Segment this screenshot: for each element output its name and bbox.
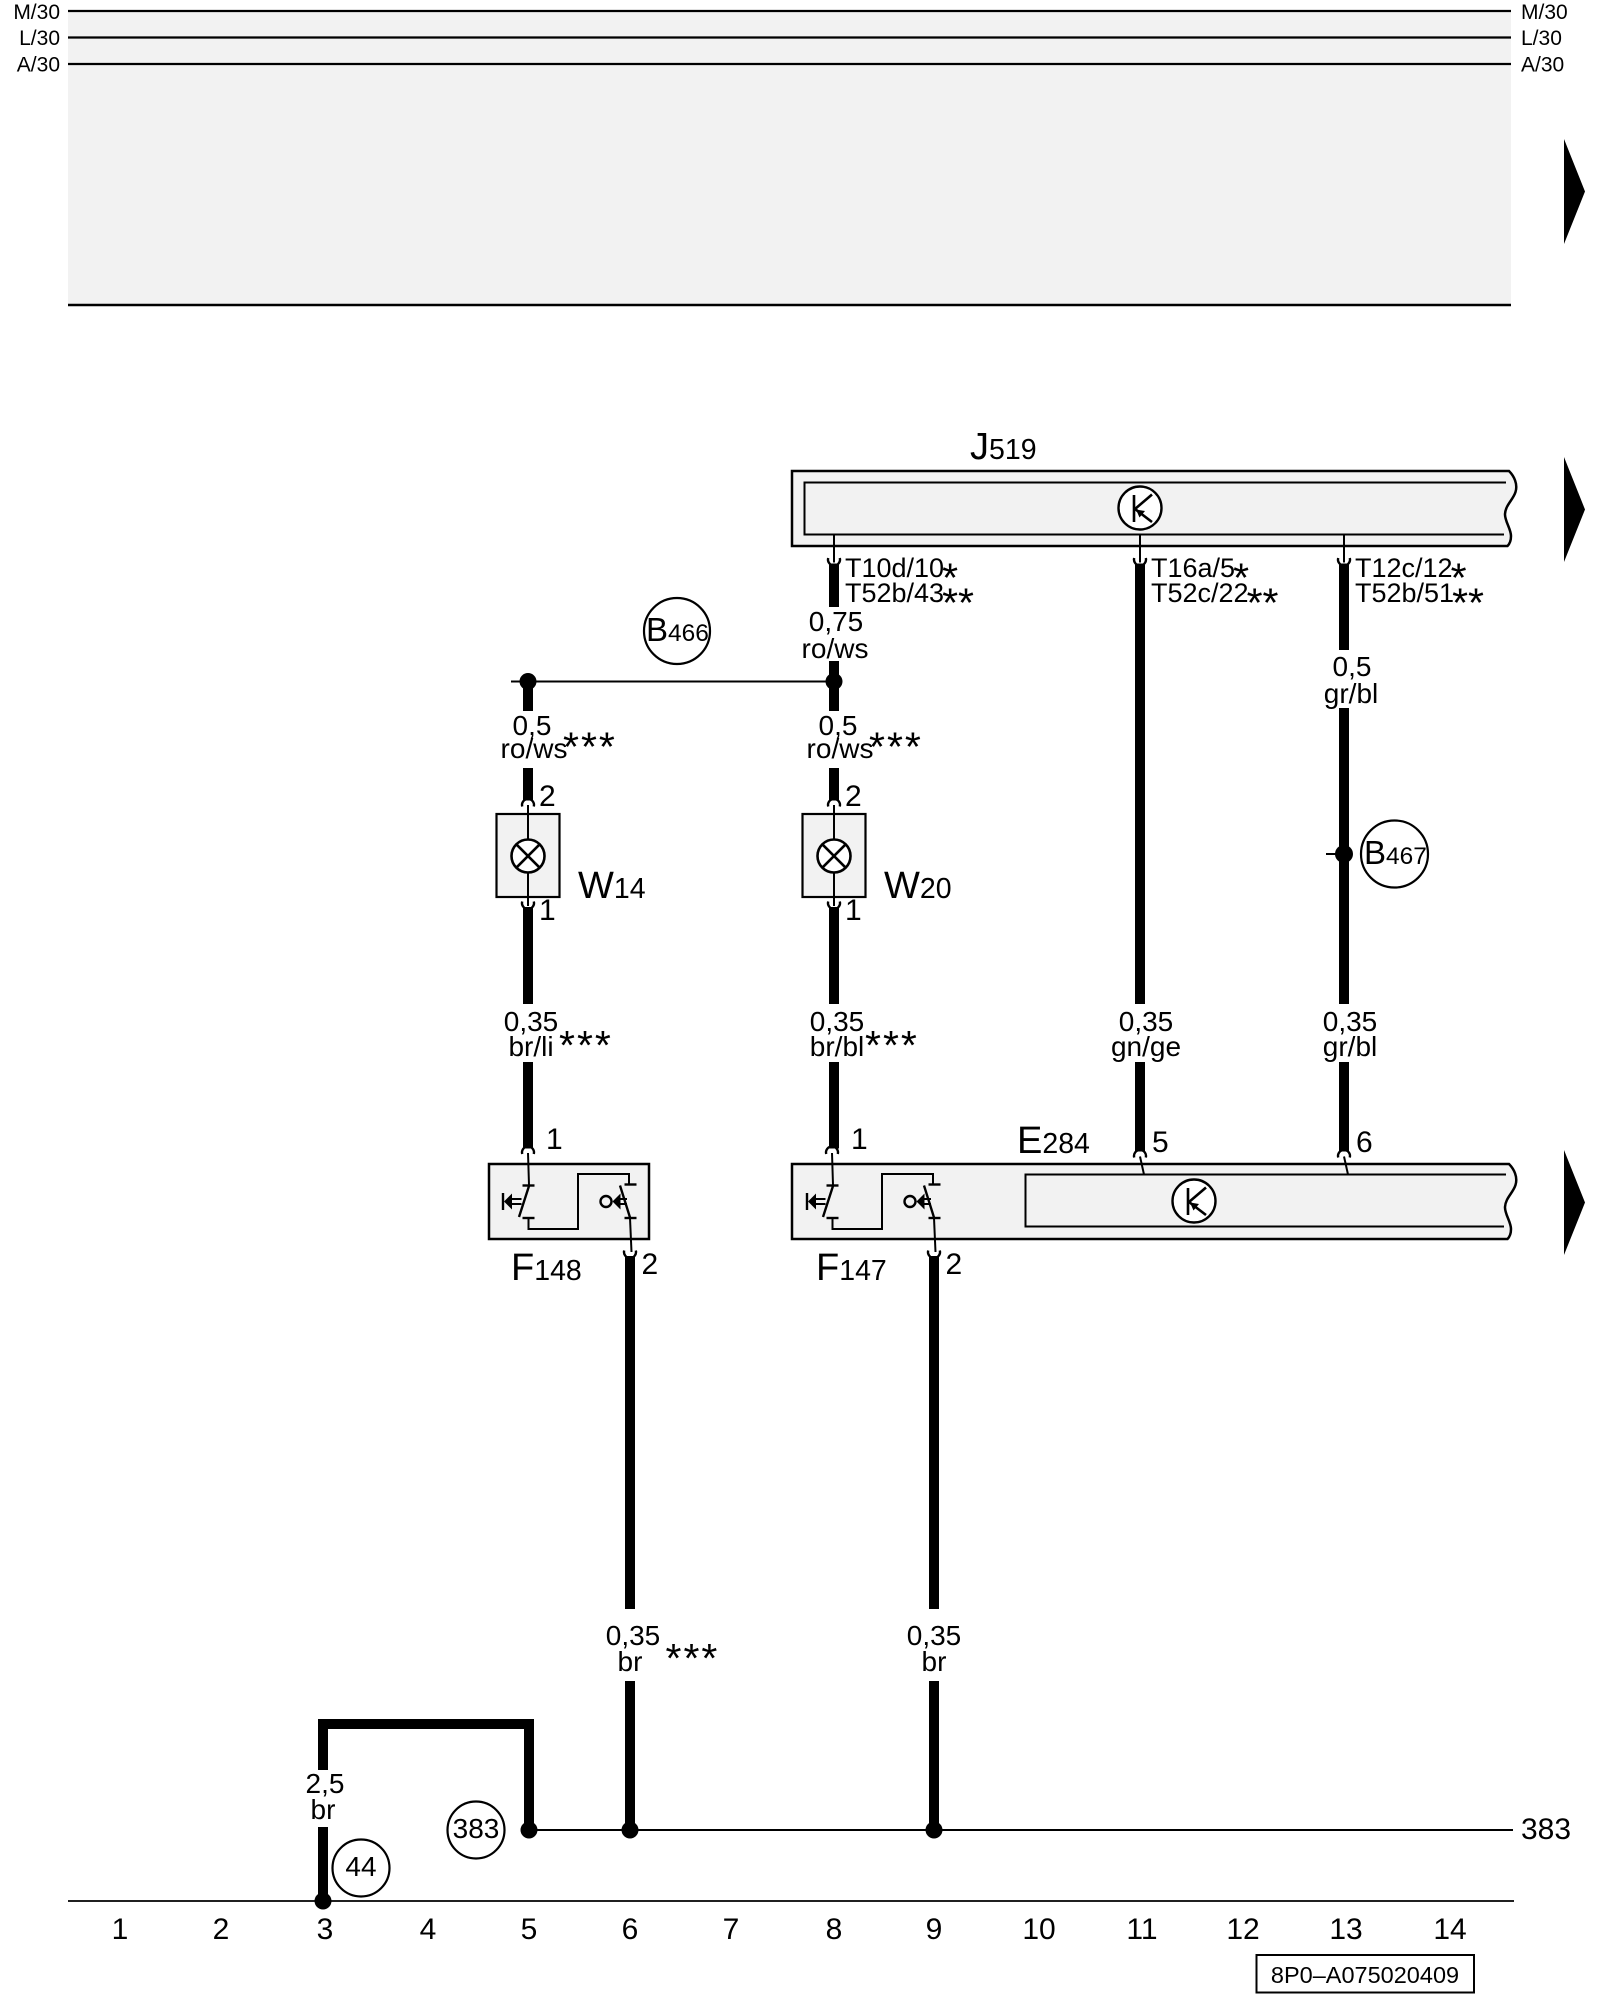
svg-text:14: 14 (1433, 1913, 1466, 1946)
svg-text:383: 383 (453, 1813, 500, 1844)
svg-text:br: br (618, 1646, 643, 1677)
svg-text:ro/ws: ro/ws (802, 633, 869, 664)
svg-text:44: 44 (345, 1851, 376, 1882)
svg-text:1: 1 (539, 894, 556, 927)
svg-text:3: 3 (317, 1913, 334, 1946)
svg-text:6: 6 (622, 1913, 639, 1946)
svg-text:7: 7 (723, 1913, 740, 1946)
svg-text:br/li: br/li (508, 1031, 553, 1062)
svg-text:br: br (311, 1794, 336, 1825)
svg-text:L/30: L/30 (1521, 27, 1562, 50)
svg-text:2: 2 (845, 780, 862, 813)
svg-text:L/30: L/30 (19, 27, 60, 50)
svg-text:gr/bl: gr/bl (1324, 678, 1378, 709)
svg-text:8: 8 (826, 1913, 843, 1946)
svg-text:8P0–A075020409: 8P0–A075020409 (1271, 1962, 1459, 1988)
svg-text:2: 2 (213, 1913, 230, 1946)
svg-text:***: *** (563, 724, 617, 770)
svg-text:5: 5 (1152, 1126, 1169, 1159)
svg-text:13: 13 (1329, 1913, 1362, 1946)
svg-text:***: *** (559, 1022, 613, 1068)
svg-text:ro/ws: ro/ws (807, 733, 874, 764)
svg-text:2: 2 (539, 780, 556, 813)
svg-text:***: *** (869, 724, 923, 770)
svg-text:4: 4 (420, 1913, 437, 1946)
svg-text:A/30: A/30 (1521, 54, 1564, 77)
svg-text:1: 1 (112, 1913, 129, 1946)
svg-text:br: br (922, 1646, 947, 1677)
svg-text:6: 6 (1356, 1126, 1373, 1159)
svg-text:1: 1 (845, 894, 862, 927)
svg-text:1: 1 (851, 1123, 868, 1156)
svg-text:A/30: A/30 (17, 54, 60, 77)
svg-text:gr/bl: gr/bl (1323, 1031, 1377, 1062)
svg-text:1: 1 (546, 1123, 563, 1156)
svg-text:2: 2 (946, 1248, 963, 1281)
svg-text:383: 383 (1521, 1813, 1571, 1846)
svg-text:M/30: M/30 (13, 1, 60, 24)
svg-text:11: 11 (1126, 1913, 1157, 1946)
svg-text:br/bl: br/bl (810, 1031, 864, 1062)
svg-text:ro/ws: ro/ws (501, 733, 568, 764)
svg-text:***: *** (666, 1635, 720, 1681)
svg-text:5: 5 (521, 1913, 538, 1946)
svg-text:gn/ge: gn/ge (1111, 1031, 1181, 1062)
svg-text:2: 2 (642, 1248, 659, 1281)
svg-text:10: 10 (1022, 1913, 1055, 1946)
svg-text:12: 12 (1226, 1913, 1259, 1946)
svg-text:***: *** (865, 1022, 919, 1068)
svg-text:M/30: M/30 (1521, 1, 1568, 24)
svg-text:9: 9 (926, 1913, 943, 1946)
